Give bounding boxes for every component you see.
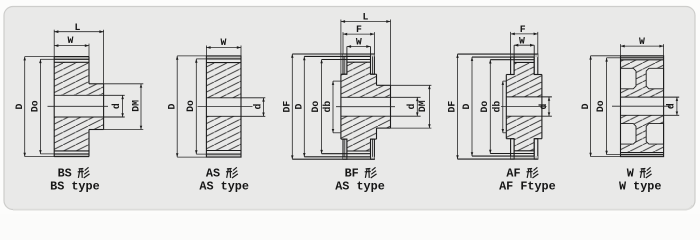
svg-text:AS type: AS type xyxy=(199,179,249,193)
caption AF type xyxy=(499,167,556,194)
svg-text:BS type: BS type xyxy=(50,179,100,193)
dimension D (pulley U3) xyxy=(293,56,305,156)
svg-text:d: d xyxy=(538,104,549,110)
svg-text:AF Ftype: AF Ftype xyxy=(499,179,556,193)
pulley U4 centerline xyxy=(501,106,547,108)
dimension L (pulley U1) xyxy=(54,22,103,84)
dimension Do (pulley U3) xyxy=(310,60,323,154)
svg-text:AS type: AS type xyxy=(335,179,385,193)
svg-text:W: W xyxy=(519,35,525,46)
svg-text:d: d xyxy=(111,103,122,109)
svg-text:W: W xyxy=(221,37,227,48)
svg-text:W type: W type xyxy=(619,179,661,193)
dimension D (pulley U2) xyxy=(166,56,241,157)
dimension d bore (pulley U1) xyxy=(111,95,124,117)
dimension db bushing (pulley U3) xyxy=(322,81,341,133)
svg-text:d: d xyxy=(252,104,263,110)
pulley U1 BS-type hub hatched section xyxy=(89,84,104,130)
pulley U4 disc outline xyxy=(506,75,542,139)
svg-text:db: db xyxy=(492,101,503,113)
pulley U2 AS-type hatched body section xyxy=(206,63,241,151)
pulley U2 bore lines xyxy=(206,98,265,117)
pulley U1 hub outline xyxy=(89,84,104,130)
dimension DM hub (pulley U3) xyxy=(391,85,432,128)
dimension F (pulley U3) xyxy=(343,24,374,54)
svg-text:F: F xyxy=(520,24,526,35)
pulley U3 hub outline xyxy=(377,85,391,128)
dimension D (pulley U5) xyxy=(580,56,664,157)
pulley U5 bore lines xyxy=(621,97,680,115)
pulley U2 body outline xyxy=(206,56,241,157)
dimension W (pulley U2) xyxy=(206,37,241,56)
svg-text:D: D xyxy=(461,104,472,110)
dimension D (pulley U1) xyxy=(14,57,89,157)
caption W type xyxy=(619,167,661,194)
caption AS type xyxy=(199,167,249,194)
svg-text:Do: Do xyxy=(29,100,40,112)
dimension W (pulley U3) xyxy=(347,37,371,48)
pulley U2 centerline xyxy=(198,106,253,108)
svg-text:D: D xyxy=(293,104,304,110)
pulley U3 tooth block lines xyxy=(292,47,374,160)
pulley U3 BF-type hatched tooth block xyxy=(347,62,371,151)
pulley U5 body outline xyxy=(621,56,664,157)
svg-text:W: W xyxy=(68,35,74,46)
pulley U5 W-type hatched sections xyxy=(621,60,664,153)
pulley U3 bore lines xyxy=(341,97,421,116)
dimension d bore (pulley U3) xyxy=(406,97,418,116)
svg-text:F: F xyxy=(356,24,362,35)
dimension W (pulley U1) xyxy=(54,35,89,57)
svg-text:DF: DF xyxy=(282,101,293,113)
svg-text:L: L xyxy=(75,22,81,33)
pulley U1 body outline xyxy=(54,57,89,157)
svg-text:d: d xyxy=(666,103,677,109)
pulley U4 tooth block lines xyxy=(458,45,538,159)
dimension DF (pulley U3) xyxy=(282,54,294,159)
svg-text:Do: Do xyxy=(185,100,196,112)
pulley U4 flange strips xyxy=(511,54,538,159)
dimension DF (pulley U4) xyxy=(447,54,459,159)
dimension Do (pulley U2) xyxy=(185,59,241,154)
pulley U4 AF-type hatched tooth block xyxy=(514,62,534,150)
svg-text:W: W xyxy=(639,36,645,47)
dimension W (pulley U4) xyxy=(514,35,534,46)
dimension d bore (pulley U4) xyxy=(538,97,550,116)
caption BS type xyxy=(50,167,100,194)
pulley U3 flange strips xyxy=(343,54,374,159)
svg-text:db: db xyxy=(322,101,333,113)
pulley U1 BS-type hatched body section xyxy=(54,62,89,151)
dimension DM hub (pulley U1) xyxy=(104,84,144,130)
dimension F (pulley U4) xyxy=(511,24,538,54)
svg-text:Do: Do xyxy=(310,101,321,113)
dimension d bore (pulley U5) xyxy=(666,97,679,115)
pulley U3 centerline xyxy=(336,106,395,108)
svg-text:Do: Do xyxy=(479,101,490,113)
svg-text:D: D xyxy=(14,104,25,110)
pulley U4 bore lines xyxy=(506,97,552,116)
svg-text:D: D xyxy=(580,103,591,109)
pulley U3 hub hatched section xyxy=(377,85,391,128)
svg-text:DM: DM xyxy=(130,100,141,112)
pulley U1 bore lines xyxy=(54,95,125,117)
dimension db bushing (pulley U4) xyxy=(492,81,507,133)
dimension L (pulley U3) xyxy=(341,12,391,86)
pulley U5 web lightening pockets xyxy=(621,68,664,144)
svg-text:DF: DF xyxy=(447,101,458,113)
pulley U1 centerline xyxy=(48,105,109,107)
caption BF type xyxy=(335,167,385,194)
svg-text:Do: Do xyxy=(595,100,606,112)
pulley U3 hatched disc band xyxy=(341,74,377,139)
dimension W (pulley U5) xyxy=(621,36,664,56)
svg-text:W: W xyxy=(356,37,362,48)
svg-text:d: d xyxy=(406,103,417,109)
dimension d bore (pulley U2) xyxy=(252,98,264,117)
pulley U3 disc outline xyxy=(341,74,377,139)
pulley U4 hatched disc band xyxy=(506,75,542,139)
svg-text:DM: DM xyxy=(417,100,428,112)
dimension D (pulley U4) xyxy=(461,57,473,156)
svg-text:L: L xyxy=(363,12,369,23)
pulley U5 centerline xyxy=(612,105,671,107)
dimension Do (pulley U1) xyxy=(29,59,89,154)
svg-text:D: D xyxy=(166,104,177,110)
dimension Do (pulley U5) xyxy=(595,58,664,155)
dimension Do (pulley U4) xyxy=(479,60,492,154)
